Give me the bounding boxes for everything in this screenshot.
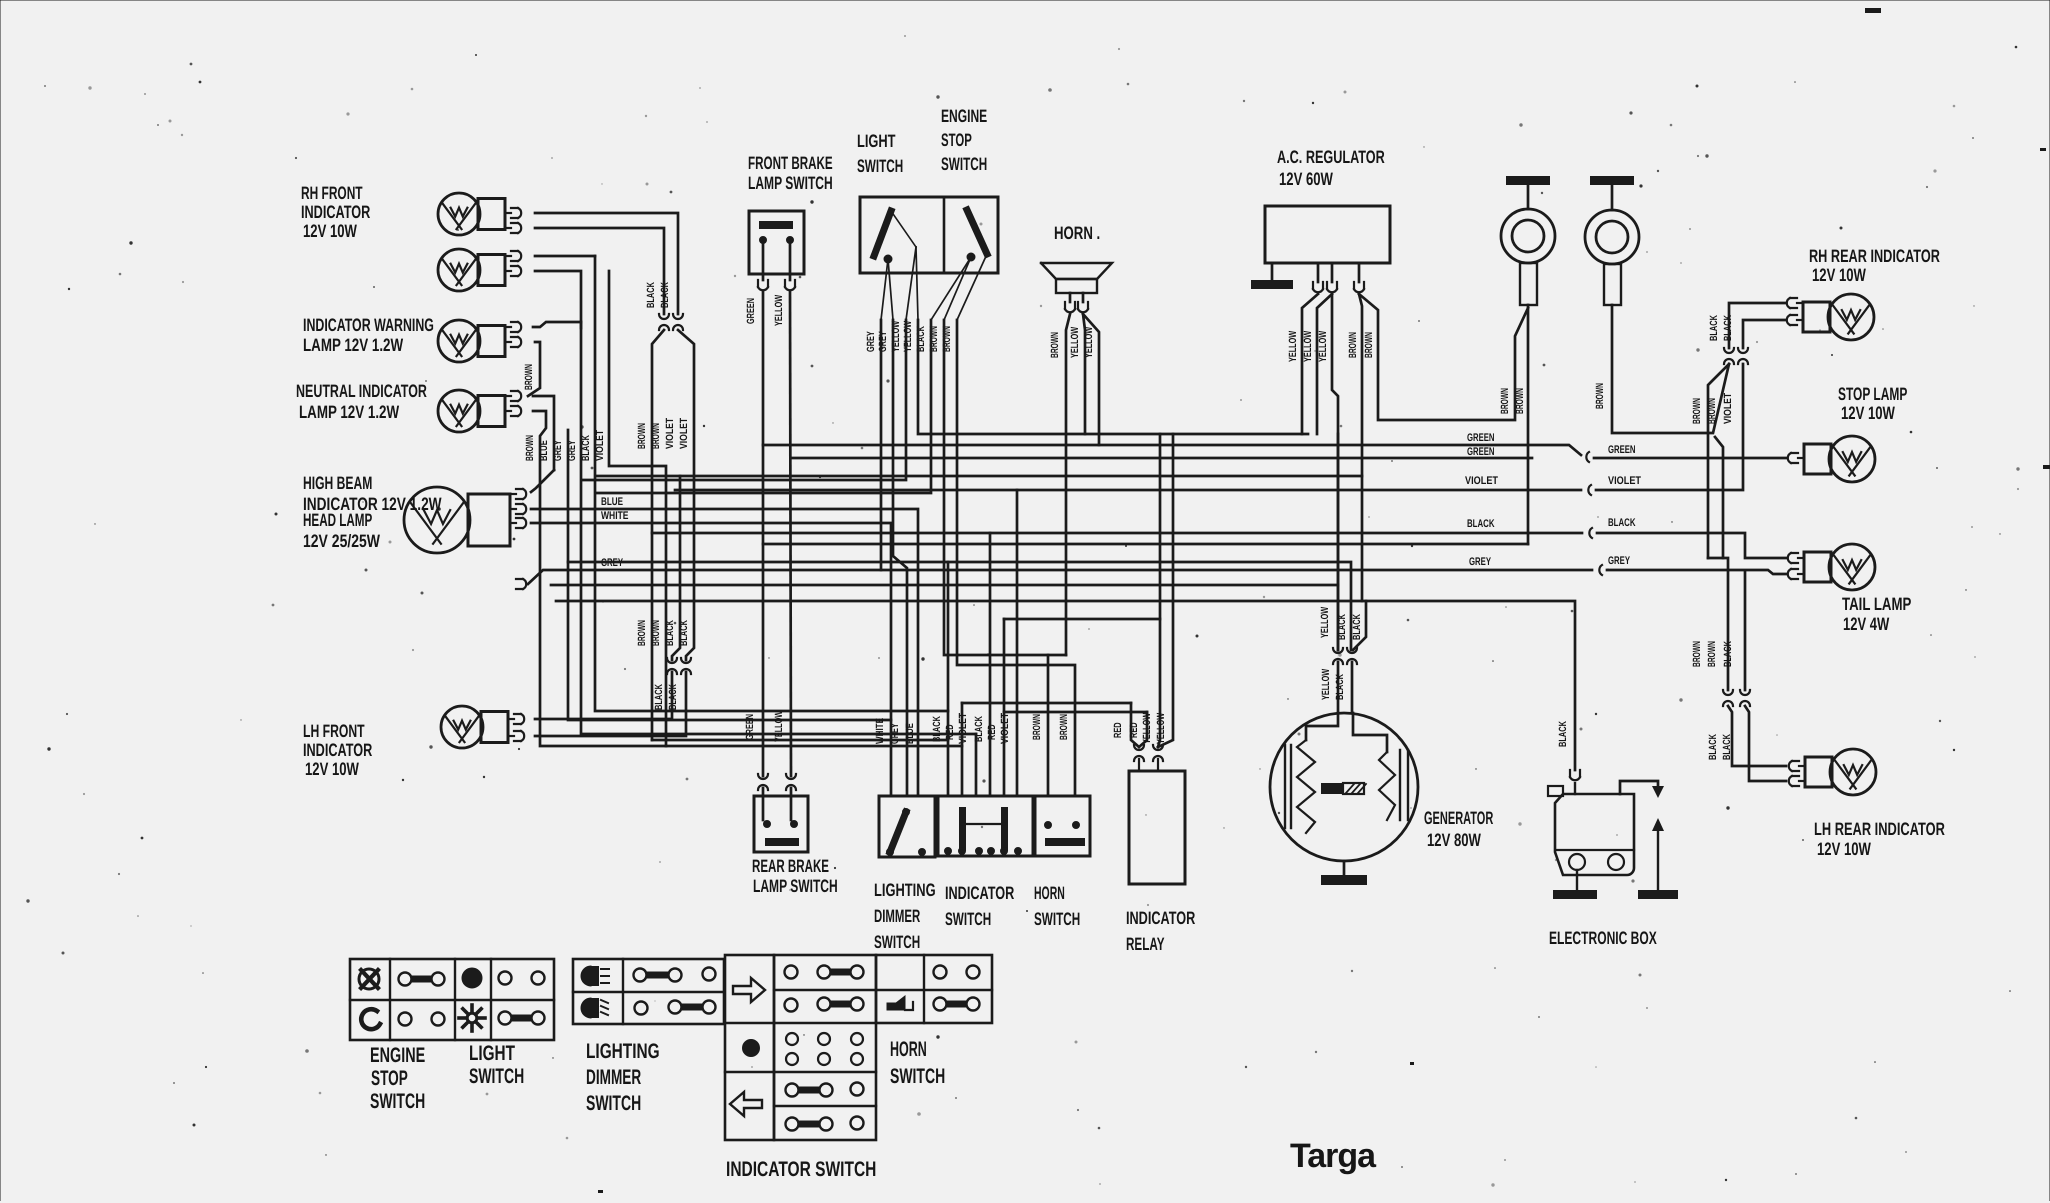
labels dimmer wires: [874, 718, 916, 744]
svg-text:VIOLET: VIOLET: [1608, 475, 1641, 487]
wire quad brown2: [609, 271, 666, 746]
svg-text:LH FRONT: LH FRONT: [303, 721, 365, 741]
svg-text:SWITCH: SWITCH: [370, 1090, 425, 1113]
horn symbol: [1041, 263, 1112, 293]
wire grey2 ls: [893, 320, 907, 796]
front brake yellow wire: [790, 292, 791, 776]
lamp indicator warning: [438, 249, 521, 291]
svg-text:SWITCH: SWITCH: [469, 1065, 524, 1088]
gen black up: [1353, 601, 1366, 650]
svg-text:BROWN: BROWN: [524, 435, 536, 461]
reg yellow3: [1332, 294, 1338, 650]
labels quad upper: [636, 417, 690, 449]
wire violet long down: [594, 255, 597, 258]
labels RH rear lower: [1691, 392, 1734, 424]
label RH front indicator: [301, 183, 370, 241]
generator left coil: [1285, 740, 1315, 833]
svg-text:GREEN: GREEN: [1467, 432, 1495, 444]
svg-text:VIOLET: VIOLET: [664, 417, 676, 449]
hook elec box: [1570, 770, 1580, 780]
wire quad brown1: [652, 330, 664, 740]
svg-text:VIOLET: VIOLET: [1465, 475, 1498, 487]
contact ls row2: [499, 1012, 545, 1025]
relay stems: [1139, 759, 1158, 771]
svg-text:Targa: Targa: [1290, 1137, 1377, 1175]
wire b1 top to connector: [535, 213, 678, 314]
label LH front indicator: [303, 721, 372, 779]
dimmer box: [879, 796, 935, 857]
coil2 brown wire: [1612, 305, 1729, 433]
rear brake hooks: [758, 774, 796, 790]
icon engine run: [361, 1009, 380, 1029]
wire LH rear bottom: [1745, 706, 1786, 781]
bottom edge: [0, 1201, 2050, 1203]
svg-text:BLACK: BLACK: [1336, 614, 1348, 640]
contact ind row2: [785, 998, 864, 1012]
svg-text:GENERATOR: GENERATOR: [1424, 808, 1493, 828]
svg-text:YELLOW: YELLOW: [1320, 669, 1332, 700]
lamp head lamp: [404, 487, 526, 553]
svg-text:BLACK: BLACK: [1722, 641, 1734, 667]
table indicator contacts: [774, 955, 876, 1140]
svg-text:ENGINE: ENGINE: [941, 106, 987, 126]
svg-text:HORN: HORN: [890, 1038, 927, 1061]
icon arrow right: [733, 978, 765, 1002]
label high beam indicator: [303, 473, 442, 514]
wire b2 bottom grey: [535, 271, 581, 328]
svg-text:YELLOW: YELLOW: [773, 711, 785, 742]
connector violet: [1588, 485, 1591, 495]
wire b3 top grey: [533, 322, 581, 327]
switch divider: [943, 197, 946, 273]
svg-text:YELLOW: YELLOW: [902, 321, 914, 352]
label electronic box: [1549, 928, 1657, 948]
regulator stems: [1318, 263, 1359, 282]
front brake dots: [760, 237, 793, 243]
svg-text:WHITE: WHITE: [601, 510, 629, 522]
svg-text:SWITCH: SWITCH: [586, 1092, 641, 1115]
svg-text:YELLOW: YELLOW: [1302, 331, 1314, 362]
electronic box: [1548, 783, 1634, 875]
svg-text:TAIL LAMP: TAIL LAMP: [1842, 594, 1911, 614]
svg-text:HORN: HORN: [1034, 883, 1065, 903]
svg-text:LAMP SWITCH: LAMP SWITCH: [748, 173, 833, 193]
svg-text:BROWN: BROWN: [650, 423, 662, 449]
table indicator column: [725, 955, 774, 1140]
wire b3 grey down: [581, 322, 976, 734]
svg-text:LIGHT: LIGHT: [857, 131, 896, 151]
svg-text:GREEN: GREEN: [1467, 446, 1495, 458]
label rear brake switch: [752, 856, 838, 896]
svg-text:ELECTRONIC BOX: ELECTRONIC BOX: [1549, 928, 1657, 948]
svg-text:GREEN: GREEN: [744, 714, 756, 740]
wire black ls: [597, 320, 931, 493]
icon horn small: [887, 996, 913, 1010]
svg-text:BROWN: BROWN: [636, 620, 648, 646]
label front brake switch: [748, 153, 833, 193]
svg-text:BLACK: BLACK: [1708, 315, 1720, 341]
indicator switch box: [938, 796, 1033, 856]
svg-text:BROWN: BROWN: [1706, 641, 1718, 667]
contact ls row1: [499, 972, 545, 985]
label RH rear indicator: [1809, 246, 1940, 285]
label elec black: [1557, 721, 1569, 747]
svg-text:BROWN: BROWN: [1691, 398, 1703, 424]
elec spark gap: [1652, 786, 1664, 890]
wire tail feeds: [1708, 558, 1745, 690]
svg-text:GREY: GREY: [566, 440, 578, 461]
regulator hooks: [1313, 282, 1364, 292]
rear brake dots: [764, 821, 797, 827]
svg-text:FRONT BRAKE: FRONT BRAKE: [748, 153, 833, 173]
svg-text:STOP LAMP: STOP LAMP: [1838, 384, 1907, 404]
label horn: [1054, 223, 1100, 243]
svg-text:12V 10W: 12V 10W: [303, 221, 357, 241]
table dimmer block: [573, 959, 724, 1024]
scan mark bottom: [598, 1062, 1414, 1193]
svg-text:BLACK: BLACK: [1351, 614, 1363, 640]
svg-text:BROWN: BROWN: [523, 364, 535, 390]
wire yellow2 ls: [918, 320, 1308, 434]
lamp LH rear indicator: [1789, 749, 1876, 795]
contact horn row1: [934, 966, 980, 979]
elec box top wire: [1620, 781, 1658, 794]
svg-text:STOP: STOP: [941, 130, 972, 150]
label light switch: [857, 131, 903, 176]
rear brake bar: [765, 838, 799, 846]
svg-text:SWITCH: SWITCH: [941, 154, 987, 174]
label indicator switch: [945, 883, 1014, 929]
icon dot: [743, 1040, 759, 1056]
labels indicator wires: [931, 712, 1011, 744]
svg-text:BLUE: BLUE: [601, 496, 623, 508]
contact ind grid: [786, 1033, 863, 1065]
front brake bar: [759, 221, 793, 229]
svg-text:BROWN: BROWN: [1058, 714, 1070, 740]
svg-text:LIGHTING: LIGHTING: [586, 1040, 660, 1063]
label generator: [1424, 808, 1493, 850]
svg-text:HORN .: HORN .: [1054, 223, 1100, 243]
connector black: [1589, 528, 1592, 538]
contact es row1: [399, 973, 445, 986]
label lighting dimmer switch: [586, 1040, 660, 1115]
wire yellow1 ls: [582, 320, 906, 480]
svg-text:GREY: GREY: [552, 440, 564, 461]
svg-text:BROWN: BROWN: [650, 620, 662, 646]
labels LH upper: [1691, 641, 1734, 667]
wire LH front bottom: [535, 672, 686, 736]
generator internal wires: [1306, 713, 1387, 752]
svg-text:HEAD LAMP: HEAD LAMP: [303, 510, 372, 530]
svg-text:VIOLET: VIOLET: [594, 429, 606, 461]
contact ind row1: [785, 966, 864, 979]
dimmer lever: [887, 809, 925, 855]
label horn switch table: [890, 1038, 945, 1088]
wire RH rear top: [1729, 303, 1786, 348]
bus violet right: [1596, 364, 1743, 490]
wire RH rear bottom: [1743, 320, 1786, 348]
scan mark right edge: [2040, 148, 2050, 469]
labels RH rear black: [1708, 315, 1734, 341]
label coil2 brown: [1594, 383, 1606, 409]
svg-text:BLACK: BLACK: [659, 282, 671, 308]
labels horn switch wires: [1031, 714, 1070, 740]
svg-text:YELLOW: YELLOW: [1319, 607, 1331, 638]
lamp neutral indicator: [438, 320, 521, 362]
icon engine kill: [359, 969, 379, 989]
bus green B: [791, 457, 1532, 460]
label engine stop switch: [941, 106, 987, 174]
wire b2 top black: [535, 256, 948, 711]
wire indicator red2: [1004, 619, 1160, 796]
labels green A: [1467, 432, 1636, 456]
lamp RH rear indicator: [1787, 294, 1874, 340]
wire brown RH: [1708, 364, 1729, 558]
label white: [601, 510, 629, 522]
generator circle: [1270, 713, 1418, 861]
front brake lamp switch box: [749, 211, 804, 274]
generator ground: [1321, 861, 1367, 885]
rear brake box: [754, 796, 808, 852]
svg-text:LAMP SWITCH: LAMP SWITCH: [753, 876, 838, 896]
icon low beam: [581, 998, 608, 1018]
svg-text:YELLOW: YELLOW: [1069, 327, 1081, 358]
svg-text:LIGHTING: LIGHTING: [874, 880, 936, 900]
wire white bus: [531, 523, 891, 796]
svg-text:DIMMER: DIMMER: [586, 1066, 641, 1089]
svg-text:BLACK: BLACK: [1467, 518, 1495, 530]
svg-text:YELLOW: YELLOW: [773, 295, 785, 326]
wire grey bus: [528, 570, 1592, 584]
labels relay wires: [1112, 713, 1167, 744]
label stop lamp: [1838, 384, 1907, 423]
svg-text:BROWN: BROWN: [1031, 714, 1043, 740]
labels LH lower black: [1707, 734, 1733, 760]
svg-text:BLACK: BLACK: [931, 716, 943, 742]
labels black: [1467, 517, 1636, 530]
wire grey second: [551, 584, 1338, 587]
wire brown1 ls: [944, 320, 1066, 796]
svg-text:RELAY: RELAY: [1126, 934, 1165, 954]
connector pair LH front: [667, 658, 691, 674]
label dimmer switch: [874, 880, 936, 952]
contact es row2: [399, 1013, 445, 1026]
label coil1 brown: [1499, 388, 1526, 414]
contact dimmer row1: [634, 968, 716, 982]
wire quad violet2: [678, 330, 694, 660]
wire grey2 down: [568, 430, 891, 720]
svg-text:12V 4W: 12V 4W: [1843, 614, 1889, 634]
svg-text:LIGHT: LIGHT: [469, 1042, 515, 1065]
wire b1 bottom to connector: [535, 228, 664, 314]
connector pair b1: [659, 314, 683, 330]
label green B: [1467, 446, 1495, 458]
bus violet: [675, 489, 1581, 492]
svg-text:VIOLET: VIOLET: [1722, 392, 1734, 424]
svg-text:BROWN: BROWN: [636, 423, 648, 449]
connector grey: [1599, 565, 1602, 575]
labels quad lower: [636, 620, 690, 646]
wire b4 blue to headlamp: [531, 470, 554, 492]
contact ind row5: [786, 1117, 864, 1131]
svg-text:RH FRONT: RH FRONT: [301, 183, 363, 203]
horn switch box: [1035, 796, 1090, 856]
svg-text:12V 10W: 12V 10W: [1812, 265, 1866, 285]
connectors RH rear: [1724, 348, 1748, 364]
labels horn wires: [1049, 327, 1095, 358]
svg-text:INDICATOR: INDICATOR: [303, 740, 372, 760]
contact horn row2: [934, 998, 980, 1011]
svg-text:BLACK: BLACK: [678, 620, 690, 646]
svg-text:SWITCH: SWITCH: [1034, 909, 1080, 929]
label tail lamp: [1842, 594, 1911, 634]
hook grey headlamp: [516, 579, 526, 589]
svg-text:RED: RED: [944, 724, 956, 740]
svg-text:BLACK: BLACK: [645, 282, 657, 308]
bus green A: [763, 445, 1581, 455]
reg brown1: [1359, 294, 1362, 601]
svg-text:YELLOW: YELLOW: [1155, 713, 1167, 744]
wire brown2 ls: [957, 320, 1075, 796]
connectors LH rear: [1723, 690, 1750, 706]
svg-text:REAR BRAKE: REAR BRAKE: [752, 856, 829, 876]
icon arrow left: [730, 1092, 762, 1116]
svg-text:12V 10W: 12V 10W: [305, 759, 359, 779]
label LH rear indicator: [1814, 819, 1945, 859]
svg-text:12V 10W: 12V 10W: [1841, 403, 1895, 423]
label light switch table: [469, 1042, 524, 1088]
lamp stop lamp: [1788, 436, 1875, 482]
label engine stop switch: [370, 1044, 425, 1113]
svg-text:SWITCH: SWITCH: [945, 909, 991, 929]
bus black right: [1597, 533, 1786, 558]
contact dimmer row2: [635, 1001, 716, 1015]
light switch throw: [891, 211, 916, 247]
svg-text:BROWN: BROWN: [1514, 388, 1526, 414]
wire indicator red1: [962, 702, 1131, 705]
svg-text:RED: RED: [1112, 722, 1124, 738]
front brake stems: [763, 243, 790, 280]
label indicator warning lamp: [303, 315, 434, 355]
wire LH front top: [535, 672, 672, 719]
lamp high beam indicator: [438, 390, 521, 432]
svg-text:STOP: STOP: [371, 1067, 408, 1090]
horn yellow2 wire: [1083, 314, 1099, 445]
svg-text:YELLOW: YELLOW: [1083, 327, 1095, 358]
svg-text:BLACK: BLACK: [1722, 315, 1734, 341]
labels black pair LH: [653, 684, 679, 710]
svg-text:INDICATOR SWITCH: INDICATOR SWITCH: [726, 1158, 876, 1181]
bus grey right: [1607, 570, 1786, 574]
svg-text:SWITCH: SWITCH: [857, 156, 903, 176]
svg-text:BLUE: BLUE: [538, 440, 550, 461]
svg-text:BLACK: BLACK: [1608, 517, 1636, 529]
svg-text:SWITCH: SWITCH: [874, 932, 920, 952]
svg-text:12V 80W: 12V 80W: [1427, 830, 1481, 850]
svg-text:12V 25/25W: 12V 25/25W: [303, 531, 380, 551]
wire quad violet1: [672, 476, 680, 660]
ignition coil 2: [1585, 176, 1639, 305]
icon high beam: [581, 966, 609, 986]
horn stems: [1070, 293, 1083, 302]
wire LH rear top: [1728, 706, 1786, 766]
svg-text:INDICATOR: INDICATOR: [301, 202, 370, 222]
label ac regulator: [1277, 147, 1385, 189]
scan mark top right: [1865, 8, 1881, 13]
gen yellow wire: [1337, 650, 1339, 713]
light+engine switch box: [860, 197, 998, 273]
svg-text:DIMMER: DIMMER: [874, 906, 920, 926]
svg-text:BROWN: BROWN: [1363, 332, 1375, 358]
svg-text:BLACK: BLACK: [653, 684, 665, 710]
svg-text:YELLOW: YELLOW: [1141, 713, 1153, 744]
bus y562: [568, 562, 1351, 796]
svg-text:BROWN: BROWN: [1049, 332, 1061, 358]
svg-text:LAMP 12V 1.2W: LAMP 12V 1.2W: [299, 402, 399, 422]
icon light on: [463, 969, 482, 988]
svg-text:BLACK: BLACK: [1334, 674, 1346, 700]
relay hooks: [1134, 745, 1163, 761]
icon light sun: [459, 1005, 485, 1031]
horn yellow1 wire: [1083, 314, 1085, 434]
label horn switch: [1034, 883, 1080, 929]
svg-text:NEUTRAL INDICATOR: NEUTRAL INDICATOR: [296, 381, 427, 401]
gen yellow up: [1337, 434, 1340, 650]
labels grey: [1469, 555, 1630, 568]
wire b3 bottom brown jumper: [528, 342, 540, 396]
svg-text:GREEN: GREEN: [1608, 444, 1636, 456]
lamp tail lamp: [1788, 544, 1875, 590]
labels violet: [1465, 475, 1641, 487]
regulator ground: [1251, 263, 1293, 289]
ignition coil 1: [1501, 176, 1555, 305]
svg-text:HIGH BEAM: HIGH BEAM: [303, 473, 372, 493]
svg-text:12V 60W: 12V 60W: [1279, 169, 1333, 189]
front brake green wire: [762, 292, 765, 776]
bus y601: [556, 601, 1575, 770]
reg yellow2: [1317, 294, 1332, 434]
svg-text:INDICATOR: INDICATOR: [1126, 908, 1195, 928]
horn hooks: [1065, 302, 1088, 312]
wire y476: [597, 475, 1362, 478]
svg-text:RH REAR INDICATOR: RH REAR INDICATOR: [1809, 246, 1940, 266]
engine stop lever: [967, 210, 987, 261]
svg-text:INDICATOR: INDICATOR: [945, 883, 1014, 903]
label indicator relay: [1126, 908, 1195, 954]
svg-text:LH REAR INDICATOR: LH REAR INDICATOR: [1814, 819, 1945, 839]
table horn block: [876, 955, 992, 1023]
svg-text:GREEN: GREEN: [745, 298, 757, 324]
svg-text:BROWN: BROWN: [1706, 398, 1718, 424]
horn brown wire: [1066, 314, 1070, 655]
relay box: [1129, 771, 1185, 884]
wire b4 top blue: [533, 396, 554, 470]
svg-text:BLACK: BLACK: [1721, 734, 1733, 760]
wire grey1 ls: [880, 320, 883, 570]
light switch lever: [874, 211, 892, 263]
gen black down: [1338, 662, 1352, 713]
label head lamp: [303, 510, 380, 551]
svg-text:BLACK: BLACK: [1707, 734, 1719, 760]
svg-text:BLACK: BLACK: [1557, 721, 1569, 747]
labels gen wires: [1319, 607, 1363, 700]
bus y544: [763, 543, 1528, 546]
svg-text:INDICATOR WARNING: INDICATOR WARNING: [303, 315, 434, 335]
svg-text:BLACK: BLACK: [664, 620, 676, 646]
svg-text:LAMP 12V 1.2W: LAMP 12V 1.2W: [303, 335, 403, 355]
bus green A right: [1594, 457, 1786, 460]
generator center rect: [1321, 783, 1366, 794]
